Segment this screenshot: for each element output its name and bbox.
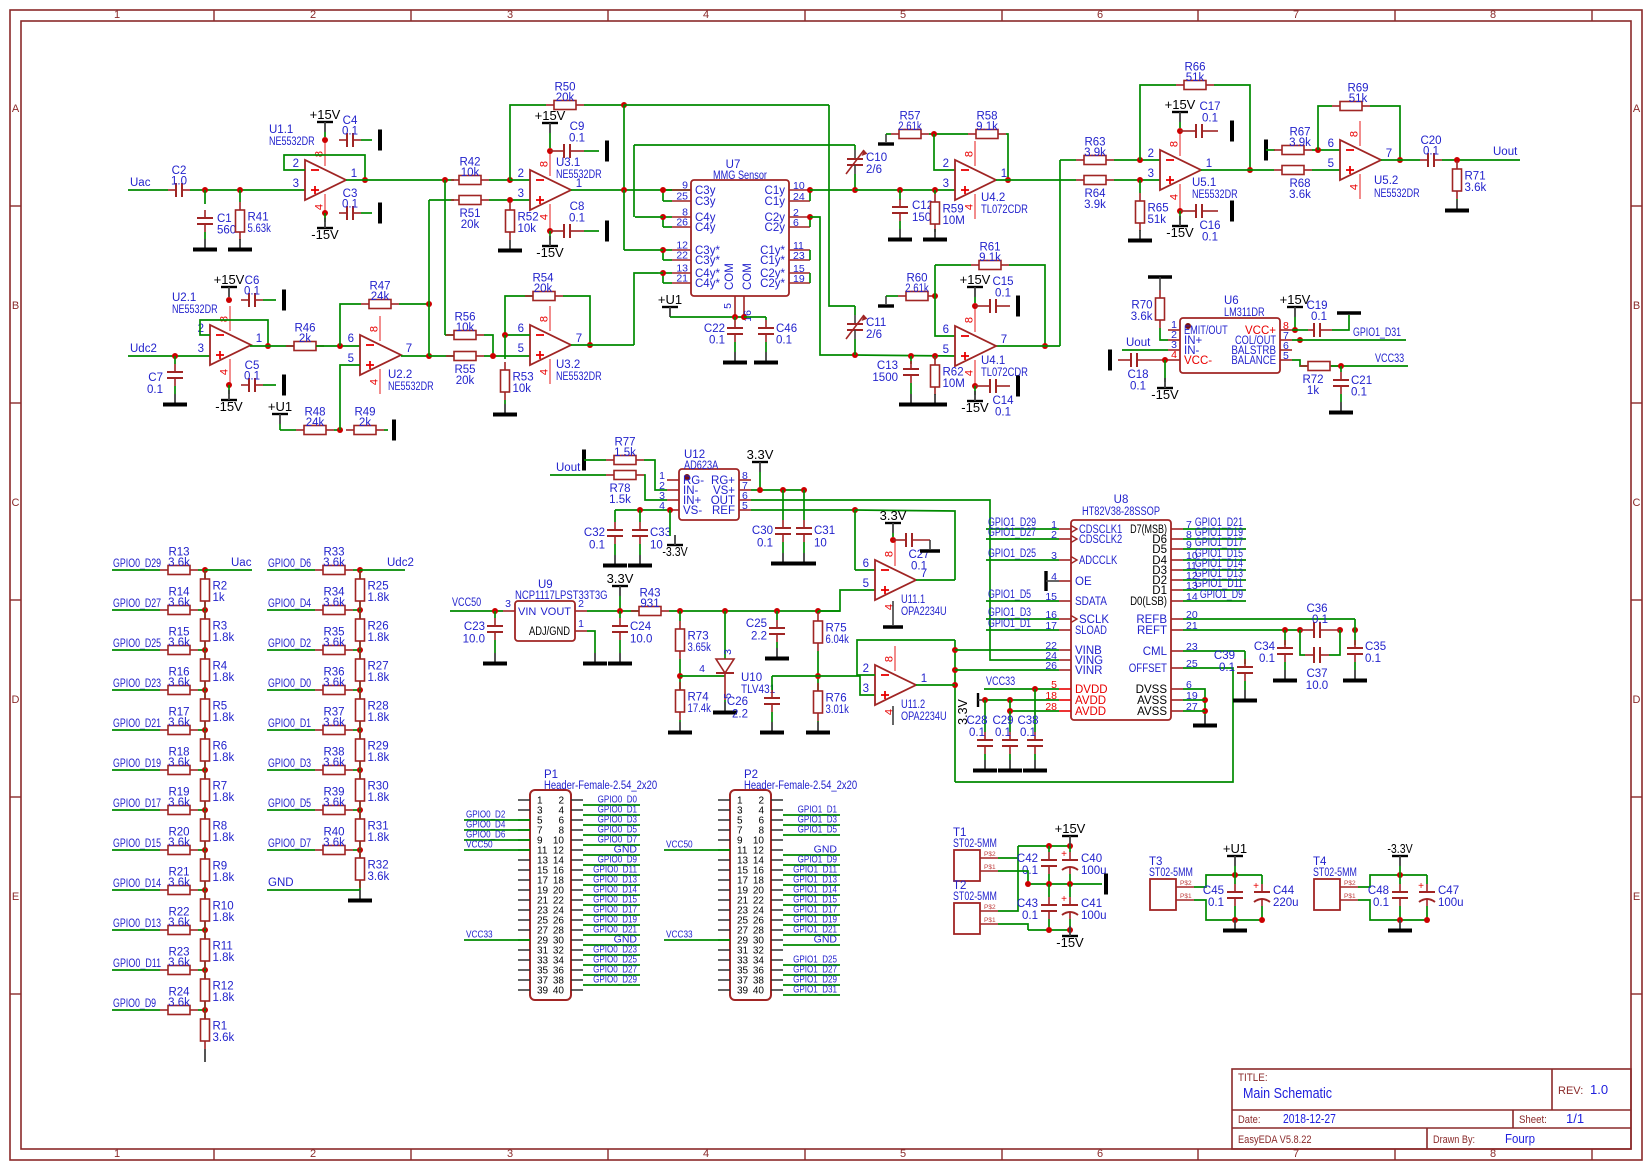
svg-text:GPIO0_D15: GPIO0_D15 — [113, 838, 161, 850]
U8 pin 1 CDSCLK1 — [1051, 519, 1122, 536]
capacitor C31 label — [814, 525, 835, 550]
svg-text:2: 2 — [310, 9, 316, 21]
net label GPIO1_D29 — [988, 517, 1036, 529]
svg-text:3: 3 — [198, 343, 204, 355]
svg-text:4: 4 — [314, 204, 326, 210]
svg-text:3.6k: 3.6k — [168, 917, 190, 929]
svg-text:3.6k: 3.6k — [323, 557, 345, 569]
svg-text:E: E — [1633, 891, 1640, 903]
junction — [774, 608, 780, 614]
ground — [1445, 200, 1469, 211]
svg-text:ST02-5MM: ST02-5MM — [1313, 867, 1357, 879]
svg-text:U8: U8 — [1114, 494, 1129, 506]
wire — [464, 819, 530, 821]
wire — [198, 609, 205, 611]
wire — [1059, 160, 1061, 346]
svg-text:0.1: 0.1 — [911, 561, 927, 573]
junction — [265, 343, 271, 349]
net label GPIO0_D11 — [593, 864, 637, 876]
svg-text:C32: C32 — [584, 527, 605, 539]
svg-text:GPIO0_D3: GPIO0_D3 — [268, 758, 311, 770]
wire — [1284, 630, 1286, 645]
ground — [771, 553, 795, 564]
capacitor C14 — [975, 379, 1014, 419]
wire — [986, 528, 1059, 530]
svg-text:C40: C40 — [1081, 853, 1102, 865]
svg-text:C4y: C4y — [695, 222, 716, 234]
wire — [886, 295, 898, 297]
svg-text:0.1: 0.1 — [1219, 662, 1235, 674]
svg-text:VS-: VS- — [683, 505, 702, 517]
svg-text:C48: C48 — [1368, 885, 1389, 897]
U12 pin 3 IN+ — [659, 490, 701, 507]
junction — [1005, 177, 1011, 183]
svg-text:10.0: 10.0 — [1306, 680, 1328, 692]
net label GPIO1_D27 — [793, 964, 837, 976]
ground — [608, 653, 632, 664]
wire — [639, 510, 641, 522]
capacitor C24 — [612, 618, 628, 640]
wire — [803, 490, 805, 520]
resistor R42 — [451, 157, 489, 185]
wire — [783, 994, 840, 996]
wire — [204, 690, 206, 730]
capacitor C25 — [769, 620, 785, 642]
svg-text:-15V: -15V — [536, 245, 564, 260]
svg-text:TL072CDR: TL072CDR — [981, 204, 1028, 216]
junction — [1454, 157, 1460, 163]
junction — [1352, 627, 1358, 633]
svg-text:7: 7 — [406, 343, 412, 355]
op-amp U4.1 — [943, 307, 1008, 385]
wire — [855, 510, 955, 580]
svg-text:3.6k: 3.6k — [323, 837, 345, 849]
P1 pins 39/40 — [518, 986, 583, 997]
ground — [583, 653, 607, 664]
U6 pin 7 COL/OUT — [1235, 330, 1292, 347]
wire — [1160, 328, 1168, 340]
wire — [1312, 149, 1340, 151]
P1 pins 15/16 — [518, 866, 583, 877]
svg-text:2: 2 — [310, 1148, 316, 1160]
capacitor C30 — [775, 520, 791, 542]
svg-text:GPIO0_D2: GPIO0_D2 — [268, 638, 311, 650]
junction — [357, 607, 363, 613]
wire — [583, 814, 640, 816]
svg-text:A: A — [1633, 103, 1641, 115]
wire — [428, 200, 430, 356]
net label GPIO0_D3 — [598, 814, 637, 826]
wire — [198, 569, 205, 571]
junction — [357, 647, 363, 653]
net label GPIO1_D17 — [793, 904, 837, 916]
op-amp U5.2 — [1328, 121, 1393, 199]
power flag +15V — [1280, 292, 1311, 317]
net label GPIO0_D23 — [593, 944, 637, 956]
ground — [888, 229, 912, 240]
P2 pins 35/36 — [718, 966, 783, 977]
svg-text:20k: 20k — [534, 283, 553, 295]
svg-text:19: 19 — [793, 273, 805, 285]
svg-text:P$1: P$1 — [1180, 893, 1192, 900]
junction — [547, 228, 553, 234]
wire — [1354, 630, 1356, 645]
wire — [204, 1010, 206, 1030]
svg-text:0.1: 0.1 — [1020, 727, 1036, 739]
junction — [1397, 872, 1403, 878]
svg-text:GND: GND — [814, 934, 838, 946]
svg-text:10k: 10k — [513, 383, 532, 395]
svg-text:8: 8 — [219, 316, 231, 322]
wire — [1340, 366, 1342, 372]
svg-text:100u: 100u — [1438, 897, 1464, 909]
capacitor C21 — [1333, 372, 1372, 399]
capacitor C38 label — [1017, 715, 1038, 739]
wire — [583, 804, 640, 806]
IC U8 HT82V38-28SSOP — [1071, 494, 1171, 720]
wire — [986, 629, 1059, 631]
stub below R1 — [204, 1049, 206, 1062]
wire — [504, 400, 506, 404]
U7 pins 13/21 C4y* — [672, 263, 720, 291]
svg-text:4: 4 — [539, 369, 551, 375]
wire — [583, 964, 640, 966]
svg-text:6.04k: 6.04k — [826, 634, 850, 646]
resistor R7 — [201, 771, 235, 809]
power flag -15V — [215, 390, 243, 414]
op-amp U11.1 — [863, 541, 928, 610]
resistor R61 — [971, 242, 1009, 270]
wire — [445, 334, 454, 336]
svg-text:5.63k: 5.63k — [248, 223, 272, 235]
svg-text:NE5532DR: NE5532DR — [269, 136, 315, 148]
wire — [782, 542, 784, 553]
wire — [359, 810, 361, 850]
wire — [1370, 106, 1400, 160]
wire — [934, 229, 936, 232]
ground — [1388, 920, 1412, 931]
wire — [1234, 875, 1236, 884]
wire — [267, 689, 315, 691]
svg-text:2: 2 — [1148, 148, 1154, 160]
wire — [663, 189, 672, 191]
svg-text:39: 39 — [537, 986, 549, 997]
junction — [237, 187, 243, 193]
svg-text:3: 3 — [293, 178, 299, 190]
net label GPIO1_D14 — [793, 884, 837, 896]
capacitor C29 — [1002, 732, 1018, 754]
wire — [1201, 169, 1274, 171]
wire — [128, 355, 210, 357]
junction — [815, 608, 821, 614]
wire — [934, 394, 936, 395]
op-amp U5.2 labels — [1374, 175, 1420, 200]
wire — [198, 889, 205, 891]
wire — [639, 544, 641, 555]
resistor R60 — [898, 273, 936, 301]
svg-text:ADJ/GND: ADJ/GND — [529, 626, 570, 638]
ground (bar) — [1230, 201, 1234, 222]
svg-text:U3.1: U3.1 — [556, 157, 580, 169]
wire — [198, 729, 205, 731]
wire — [954, 640, 956, 782]
capacitor C24 label — [630, 621, 652, 646]
svg-text:2.61k: 2.61k — [898, 121, 922, 133]
capacitor C12 label — [912, 200, 938, 224]
wire — [583, 954, 640, 956]
wire — [1183, 579, 1246, 581]
P1 pins 37/38 — [518, 976, 583, 987]
ground — [1329, 402, 1353, 413]
net label GND — [814, 844, 838, 856]
wire — [445, 179, 454, 181]
resistor R74 — [676, 682, 712, 720]
svg-text:C47: C47 — [1438, 885, 1459, 897]
wire — [583, 924, 640, 926]
svg-text:0.1: 0.1 — [757, 538, 773, 550]
resistor R57 — [891, 111, 929, 139]
resistor R14 — [160, 587, 198, 615]
net label GPIO0_D5 — [268, 798, 311, 810]
svg-text:AVSS: AVSS — [1137, 706, 1167, 718]
wire — [663, 249, 672, 251]
svg-text:1.8k: 1.8k — [213, 992, 235, 1004]
junction — [1232, 917, 1238, 923]
svg-text:NE5532DR: NE5532DR — [172, 304, 218, 316]
wire — [324, 213, 326, 222]
wire — [444, 180, 446, 335]
wire — [664, 849, 730, 851]
trimmer capacitor C11 — [846, 315, 886, 341]
junction — [722, 608, 728, 614]
capacitor C7 label — [147, 372, 163, 396]
svg-text:-15V: -15V — [311, 227, 339, 242]
svg-text:3: 3 — [518, 188, 524, 200]
junction — [932, 353, 938, 359]
connector T4 ST02-5MM — [1313, 856, 1358, 910]
wire — [204, 730, 206, 770]
svg-text:D: D — [12, 694, 20, 706]
svg-text:0.1: 0.1 — [776, 335, 792, 347]
svg-text:VCC33: VCC33 — [986, 676, 1015, 688]
wire — [892, 533, 894, 537]
wire — [1179, 122, 1181, 128]
P1 pins 23/24 — [518, 906, 583, 917]
op-amp U5.1 labels — [1192, 177, 1238, 201]
ground — [1193, 715, 1217, 726]
svg-text:1.5k: 1.5k — [614, 447, 636, 459]
ground (bar) — [1230, 121, 1234, 142]
power flag -15V — [311, 218, 339, 242]
svg-text:COM: COM — [724, 263, 736, 290]
wire — [563, 296, 590, 345]
svg-text:C4y*: C4y* — [695, 278, 720, 290]
wire — [818, 676, 875, 695]
resistor R68 — [1274, 166, 1312, 202]
capacitor C29 label — [992, 715, 1013, 739]
wire — [751, 489, 806, 491]
svg-text:OFFSET: OFFSET — [1129, 663, 1167, 675]
wire — [744, 316, 766, 318]
U8 pin 20 REFB — [1136, 609, 1198, 626]
op-amp U11.1 labels — [901, 594, 947, 618]
capacitor C43 — [1041, 897, 1057, 919]
P2 pins 15/16 — [718, 866, 783, 877]
svg-text:GPIO0_D7: GPIO0_D7 — [268, 838, 311, 850]
capacitor C43 label — [1017, 898, 1038, 922]
svg-text:P$2: P$2 — [984, 851, 996, 858]
junction — [490, 353, 496, 359]
svg-text:8: 8 — [884, 551, 896, 557]
svg-text:0.1: 0.1 — [709, 335, 725, 347]
wire — [1183, 600, 1246, 602]
P1 pins 3/4 — [518, 806, 583, 817]
capacitor C48 — [1392, 884, 1408, 906]
junction — [1137, 157, 1143, 163]
svg-text:3.6k: 3.6k — [323, 677, 345, 689]
ground (bar) — [582, 450, 586, 471]
wire — [583, 894, 640, 896]
wire — [1122, 349, 1168, 351]
svg-text:6: 6 — [863, 558, 869, 570]
power flag +U1 — [658, 292, 682, 317]
svg-text:C18: C18 — [1127, 369, 1148, 381]
svg-text:C16: C16 — [1199, 220, 1220, 232]
U12 pin 5 REF — [712, 500, 751, 517]
resistor R71 — [1453, 161, 1487, 199]
svg-text:6: 6 — [348, 333, 354, 345]
P2 pins 1/2 — [718, 796, 783, 807]
svg-text:C35: C35 — [1365, 641, 1386, 653]
wire — [899, 190, 901, 200]
svg-text:3.6k: 3.6k — [323, 597, 345, 609]
net label GPIO0_D21 — [113, 718, 161, 730]
wire — [112, 729, 160, 731]
wire — [1292, 360, 1307, 366]
resistor R26 — [356, 611, 390, 649]
svg-text:560: 560 — [217, 225, 236, 237]
svg-text:C44: C44 — [1273, 885, 1295, 897]
svg-text:0.1: 0.1 — [1312, 614, 1328, 626]
svg-text:220u: 220u — [1273, 897, 1299, 909]
net label GPIO1_D9 — [798, 854, 837, 866]
svg-text:6: 6 — [1097, 1148, 1103, 1160]
net label Udc2 — [387, 557, 414, 569]
svg-text:GPIO0_D11: GPIO0_D11 — [113, 958, 161, 970]
wire — [584, 230, 599, 232]
svg-text:5: 5 — [900, 1148, 906, 1160]
U12 pin 8 RG+ — [711, 470, 751, 487]
svg-text:2018-12-27: 2018-12-27 — [1283, 1111, 1336, 1126]
capacitor C44 label — [1273, 885, 1299, 909]
net label GPIO0_D21 — [593, 924, 637, 936]
capacitor C44 (polarized) — [1253, 881, 1270, 906]
svg-text:TLV431: TLV431 — [741, 684, 775, 696]
U7 pins 5/16 COM — [722, 263, 754, 322]
svg-text:3.6k: 3.6k — [168, 637, 190, 649]
svg-text:1: 1 — [256, 333, 262, 345]
capacitor C41 label — [1081, 898, 1107, 922]
svg-text:VCC50: VCC50 — [666, 839, 693, 851]
resistor R40 — [315, 827, 353, 855]
svg-text:10M: 10M — [943, 215, 965, 227]
svg-text:R4: R4 — [213, 661, 228, 673]
wire — [1426, 875, 1428, 884]
svg-text:+: + — [1253, 881, 1259, 892]
svg-text:+15V: +15V — [310, 107, 341, 122]
junction — [1259, 917, 1265, 923]
wire — [974, 386, 976, 395]
wire — [1069, 846, 1071, 852]
svg-text:1.8k: 1.8k — [368, 632, 390, 644]
power flag +15V — [535, 108, 566, 133]
svg-text:5: 5 — [900, 9, 906, 21]
junction — [202, 187, 208, 193]
svg-text:+15V: +15V — [1165, 97, 1196, 112]
resistor R15 — [160, 627, 198, 655]
wire — [489, 199, 530, 201]
junction — [1397, 917, 1403, 923]
wire — [353, 569, 360, 571]
power flag -15V — [1056, 926, 1084, 950]
svg-text:GPIO0_D1: GPIO0_D1 — [268, 718, 311, 730]
wire — [809, 273, 811, 283]
svg-text:ST02-5MM: ST02-5MM — [1149, 867, 1193, 879]
wire — [679, 611, 681, 621]
svg-text:8: 8 — [1490, 1148, 1496, 1160]
svg-text:C43: C43 — [1017, 898, 1038, 910]
ground — [348, 890, 372, 901]
svg-text:6: 6 — [1328, 138, 1334, 150]
wire — [1010, 710, 1059, 712]
wire — [353, 809, 360, 811]
net label GPIO1_D19 — [1195, 527, 1243, 539]
resistor R4 — [201, 651, 235, 689]
svg-text:C21: C21 — [1351, 375, 1372, 387]
wire — [857, 640, 955, 675]
wire — [1179, 211, 1181, 220]
net label GPIO0_D6 — [268, 558, 311, 570]
svg-text:0.1: 0.1 — [1365, 653, 1381, 665]
net label GPIO1_D19 — [793, 914, 837, 926]
wire — [998, 846, 1018, 858]
svg-text:E: E — [12, 891, 19, 903]
svg-text:U2.2: U2.2 — [388, 369, 412, 381]
junction — [426, 353, 432, 359]
wire — [1048, 884, 1050, 897]
junction — [202, 687, 208, 693]
svg-text:3.3V: 3.3V — [747, 447, 774, 462]
ground — [713, 702, 737, 713]
svg-text:8: 8 — [539, 316, 551, 322]
wire — [494, 611, 496, 618]
svg-text:1: 1 — [921, 673, 927, 685]
wire — [663, 226, 672, 228]
net label Uout — [1493, 146, 1518, 158]
svg-text:25: 25 — [676, 191, 688, 203]
resistor R2 — [201, 571, 228, 609]
junction — [807, 214, 813, 220]
capacitor C48 label — [1368, 885, 1389, 909]
resistor R52 — [506, 202, 539, 240]
svg-text:ADCCLK: ADCCLK — [1079, 555, 1118, 567]
P2 pins 17/18 — [718, 876, 783, 887]
wire — [663, 200, 672, 202]
ground — [1128, 230, 1152, 241]
wire — [658, 272, 663, 274]
wire — [810, 217, 855, 355]
svg-text:-3.3V: -3.3V — [662, 544, 688, 559]
